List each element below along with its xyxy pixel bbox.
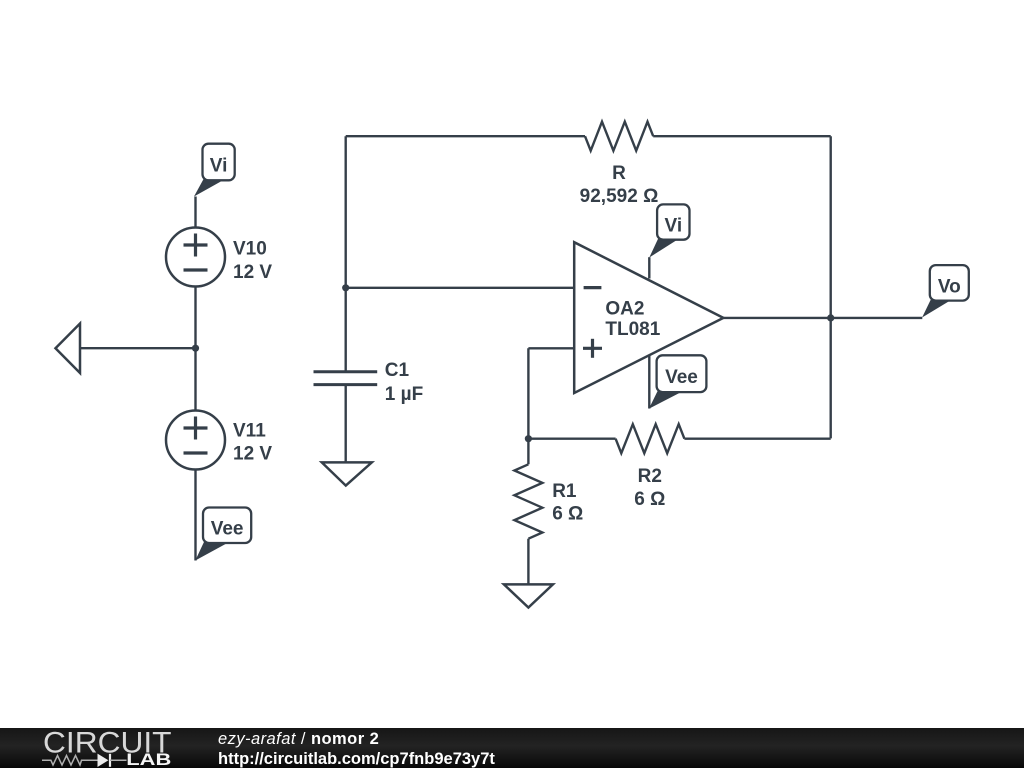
svg-text:R: R xyxy=(612,163,626,184)
svg-text:V10: V10 xyxy=(233,239,267,260)
svg-text:TL081: TL081 xyxy=(605,319,660,340)
svg-text:R2: R2 xyxy=(638,466,662,487)
svg-text:12 V: 12 V xyxy=(233,262,272,283)
svg-text:Vi: Vi xyxy=(664,215,682,236)
svg-text:OA2: OA2 xyxy=(605,298,644,319)
svg-text:LAB: LAB xyxy=(126,750,171,768)
svg-text:12 V: 12 V xyxy=(233,444,272,465)
svg-text:Vee: Vee xyxy=(211,519,244,540)
svg-text:R1: R1 xyxy=(552,481,577,502)
svg-text:Vi: Vi xyxy=(210,155,228,176)
svg-text:92,592 Ω: 92,592 Ω xyxy=(580,186,659,207)
svg-text:1 µF: 1 µF xyxy=(385,384,423,405)
svg-text:Vee: Vee xyxy=(665,367,698,388)
svg-text:6 Ω: 6 Ω xyxy=(634,489,665,510)
svg-text:C1: C1 xyxy=(385,360,410,381)
svg-text:Vo: Vo xyxy=(938,276,961,297)
svg-text:6 Ω: 6 Ω xyxy=(552,504,583,525)
svg-text:V11: V11 xyxy=(233,421,266,442)
